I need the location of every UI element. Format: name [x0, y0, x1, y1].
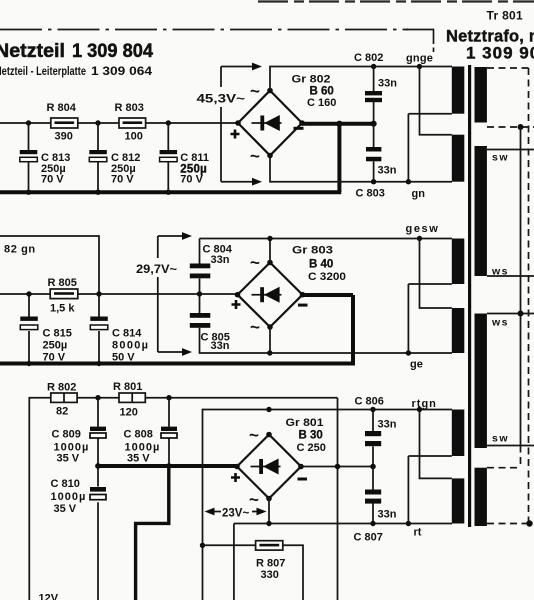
- svg-text:12V: 12V: [39, 593, 59, 600]
- Gr803 value B 40: [309, 259, 333, 271]
- resistor R805 label: [48, 277, 77, 289]
- node: C815 top junction: [26, 291, 31, 296]
- svg-text:35 V: 35 V: [57, 453, 80, 465]
- wire: winding3 bottom tap: [408, 284, 451, 353]
- resistor R803 label: [115, 102, 144, 114]
- label: 45,3V~: [195, 88, 247, 106]
- resistor R804 value 390: [55, 131, 73, 143]
- resistor R801 value 120: [120, 407, 138, 419]
- chain line: top edge right: [258, 0, 534, 2]
- capacitor C814: [90, 294, 108, 364]
- label ge: [410, 359, 423, 371]
- capacitor C802: [365, 67, 382, 124]
- transformer name: Netztrafo, m (clipped): [446, 28, 534, 46]
- svg-text:70 V: 70 V: [111, 174, 134, 186]
- svg-text:C 807: C 807: [354, 532, 383, 544]
- node: C808 bottom junction: [166, 463, 172, 469]
- capacitor C809: [90, 398, 106, 466]
- capacitor C812 label: [111, 152, 140, 186]
- Tr801 secondary winding 4 (gesw-ge lower): [452, 308, 465, 353]
- resistor R801 label: [113, 381, 142, 393]
- bridge rectifier Gr803 diamond: [238, 263, 303, 328]
- Tr801 secondary winding 1 (gnge-gn upper): [452, 67, 465, 114]
- node: dashed corner junction: [526, 520, 532, 526]
- Gr801 value B 30: [299, 430, 323, 442]
- Gr801 label: [286, 417, 324, 429]
- wire: winding2 top tap: [420, 67, 452, 135]
- label gn: [412, 188, 426, 200]
- wire: Gr802 top vertex to gnge line: [270, 67, 452, 91]
- wire: 82gn input: [0, 236, 99, 294]
- label: 29,7V~: [135, 259, 183, 276]
- svg-text:33n: 33n: [378, 509, 397, 521]
- label rt: [414, 527, 422, 539]
- svg-text:ge: ge: [410, 359, 423, 371]
- node: R807 tee junction: [200, 543, 205, 548]
- node: C807 bottom: [370, 521, 375, 526]
- wire: winding1 bottom tap: [408, 114, 451, 182]
- capacitor C814 label: [112, 328, 149, 364]
- Gr803 ~ marks: [250, 253, 260, 337]
- node: C815 rail junction: [26, 361, 31, 366]
- node gnge: [417, 64, 422, 69]
- capacitor C804 value 33n: [211, 254, 230, 266]
- Tr801 primary winding segment 1: [475, 67, 487, 123]
- svg-text:gesw: gesw: [406, 223, 440, 235]
- resistor R804 label: [47, 102, 77, 114]
- resistor R804: [51, 118, 78, 128]
- svg-text:~: ~: [250, 82, 260, 101]
- node: primary tap top: [518, 124, 524, 130]
- node: C811 rail junction: [166, 190, 171, 195]
- subtitle: Netzteil-Leiterplatte 1 309 064: [0, 64, 152, 78]
- label ws (seg3 top): [491, 317, 509, 329]
- Gr801 ~ marks: [249, 426, 259, 510]
- node: C803 bottom: [371, 179, 376, 184]
- wire: winding6 top tap: [420, 410, 452, 479]
- capacitor C809 label: [52, 429, 90, 465]
- svg-text:~: ~: [249, 426, 259, 445]
- capacitor C807 value 33n: [378, 509, 397, 521]
- capacitor C806 value 33n: [378, 419, 397, 431]
- node: minus crossing junction: [335, 464, 341, 470]
- capacitor C813 label: [41, 152, 70, 186]
- label 12V (clipped): [39, 593, 59, 600]
- svg-text:C 806: C 806: [355, 396, 384, 408]
- wire: winding4 top tap: [420, 239, 452, 309]
- wire: thick branch down-left to bottom edge: [136, 466, 169, 600]
- node: C811 top junction: [166, 120, 171, 125]
- svg-text:~: ~: [250, 147, 260, 166]
- wire: Gr801 bottom vertex down: [268, 499, 270, 524]
- svg-text:35 V: 35 V: [127, 453, 150, 465]
- svg-text:ws: ws: [491, 266, 509, 278]
- node: C806 top: [370, 407, 375, 412]
- Tr801 secondary winding 2 (gnge-gn lower): [452, 135, 465, 182]
- node: primary tap mid: [518, 311, 524, 317]
- node: C802 top: [371, 64, 376, 69]
- dashed enclosure: bottom: [487, 523, 530, 525]
- svg-text:1 309 064: 1 309 064: [91, 64, 152, 78]
- node rtgn: [417, 407, 422, 412]
- resistor R801: [119, 393, 145, 402]
- svg-text:Gr 801: Gr 801: [286, 417, 324, 429]
- svg-text:82: 82: [56, 406, 68, 418]
- svg-text:35 V: 35 V: [54, 503, 77, 515]
- node: ge wire tee: [267, 350, 272, 355]
- wire: winding5 bottom tap: [408, 456, 451, 524]
- svg-text:gn: gn: [412, 188, 426, 200]
- capacitor C813: [20, 123, 38, 192]
- capacitor C815: [20, 294, 38, 364]
- capacitor C812: [89, 123, 107, 192]
- node: C809 top junction: [95, 395, 100, 400]
- Gr803 diode symbol: [252, 287, 282, 303]
- svg-text:gnge: gnge: [406, 53, 433, 65]
- resistor R807 label: [256, 558, 285, 570]
- wire: Gr803 top vertex to gesw line: [200, 239, 453, 263]
- capacitor C811 label: [180, 152, 209, 186]
- label: 23V~: [222, 508, 249, 520]
- svg-text:~: ~: [250, 253, 260, 272]
- label C 805: [201, 332, 230, 344]
- Tr801 primary winding segment 4: [475, 468, 487, 526]
- svg-text:70 V: 70 V: [41, 174, 64, 186]
- svg-text:1 309 804: 1 309 804: [72, 40, 153, 62]
- transformer Tr801 label: [487, 9, 524, 23]
- svg-text:sw: sw: [492, 152, 509, 164]
- wire: S3 AC top wire B (rtgn): [203, 410, 453, 600]
- Gr802 - mark: [294, 127, 304, 130]
- label C 807: [354, 532, 383, 544]
- Gr802 + mark: [231, 130, 240, 139]
- Gr801 diode symbol: [251, 459, 281, 475]
- Gr803 label: [292, 245, 333, 257]
- label sw (seg3 bottom): [492, 433, 509, 445]
- capacitor C810: [90, 466, 106, 600]
- label C 806: [355, 396, 384, 408]
- svg-text:R 801: R 801: [113, 381, 142, 393]
- label C 802: [354, 52, 383, 64]
- svg-text:45,3V~: 45,3V~: [197, 94, 246, 106]
- svg-text:23V~: 23V~: [222, 508, 249, 520]
- resistor R807 value 330: [261, 569, 279, 581]
- capacitor C808: [161, 398, 177, 466]
- resistor R807: [256, 541, 283, 550]
- node: C802/C803 mid junction: [371, 121, 377, 127]
- node: C806/C807 mid junction: [370, 464, 376, 470]
- wire: primary seg2 top lead: [487, 149, 534, 151]
- svg-text:rt: rt: [414, 527, 422, 539]
- svg-text:B 40: B 40: [309, 259, 333, 271]
- svg-text:B 30: B 30: [299, 430, 323, 442]
- capacitor C815 label: [43, 328, 72, 364]
- svg-text:33n: 33n: [211, 254, 230, 266]
- Gr802 node dots: [235, 88, 305, 159]
- wire: S2 main DC+ wire y=294: [0, 293, 238, 295]
- node: gesw wire tee: [267, 236, 272, 241]
- wire: S3 DC+ junction wire (thick): [98, 464, 237, 468]
- capacitor C804: [190, 239, 211, 295]
- title: Netzteil 1 309 804: [0, 40, 153, 62]
- svg-text:70 V: 70 V: [180, 174, 203, 186]
- chain line: PCB boundary top-left: [0, 30, 434, 53]
- label ws (seg2 bottom): [491, 266, 509, 278]
- svg-text:Gr 802: Gr 802: [292, 74, 331, 86]
- Gr802 ~ marks: [250, 82, 260, 166]
- Gr801 - mark: [298, 478, 308, 481]
- capacitor C803 value 33n: [378, 165, 397, 177]
- wire: primary seg4 dashed link: [487, 446, 521, 468]
- label C 803: [356, 188, 385, 200]
- wire: vertical from wire A down right side: [337, 398, 339, 600]
- node gesw: [417, 236, 422, 241]
- svg-text:sw: sw: [492, 433, 509, 445]
- svg-text:ws: ws: [491, 317, 509, 329]
- svg-text:Tr 801: Tr 801: [487, 9, 524, 23]
- svg-text:100: 100: [125, 131, 143, 143]
- node: C814 top junction: [96, 291, 101, 296]
- node: C809/C810 junction: [95, 463, 101, 469]
- capacitor C803: [366, 124, 381, 182]
- node ge: [406, 350, 411, 355]
- svg-text:C 814: C 814: [112, 328, 142, 340]
- measurement bracket 45,3V~: [221, 63, 262, 186]
- wire: S2 bottom rail (thick): [0, 362, 355, 366]
- wire: Gr803 minus output (thick): [303, 295, 354, 364]
- svg-text:8000µ: 8000µ: [112, 340, 149, 352]
- svg-text:R 802: R 802: [47, 382, 76, 394]
- resistor R802 label: [47, 382, 76, 394]
- capacitor C810 label: [51, 478, 87, 515]
- Tr801 secondary winding 6 (rtgn-rt lower): [452, 478, 465, 523]
- svg-text:1 309 904: 1 309 904: [466, 44, 534, 63]
- svg-text:33n: 33n: [211, 340, 230, 352]
- Tr801 primary winding segment 2: [475, 146, 487, 276]
- Gr803 node dots: [235, 260, 306, 330]
- label rtgn: [412, 398, 437, 410]
- wire: Gr803 bottom vertex to ge line: [270, 327, 452, 353]
- Gr803 + mark: [232, 300, 241, 309]
- capacitor C808 label: [124, 429, 161, 465]
- Gr801 node dots: [234, 432, 304, 502]
- resistor R805 value 1,5k: [50, 303, 75, 315]
- dashed enclosure: right side: [528, 68, 530, 524]
- node rt: [406, 521, 411, 526]
- svg-text:R 804: R 804: [47, 102, 77, 114]
- label sw (primary top): [492, 152, 509, 164]
- Tr801 secondary winding 5 (rtgn-rt upper): [452, 410, 465, 457]
- label C 804: [203, 244, 233, 256]
- svg-text:29,7V~: 29,7V~: [136, 264, 177, 276]
- node: C813 top junction: [26, 120, 31, 125]
- svg-text:Netzteil: Netzteil: [0, 40, 65, 62]
- wire: Gr802 bottom vertex to gn line: [270, 156, 452, 182]
- Gr801 value C 250: [297, 442, 326, 454]
- svg-text:B 60: B 60: [310, 86, 334, 98]
- label gnge: [406, 53, 433, 65]
- wire: primary seg2 bottom lead: [487, 275, 534, 277]
- svg-text:C 250: C 250: [297, 442, 326, 454]
- svg-text:33n: 33n: [378, 165, 397, 177]
- Gr802 diode symbol: [252, 115, 282, 131]
- svg-text:C 802: C 802: [354, 52, 383, 64]
- node: C814 rail junction: [96, 361, 101, 366]
- resistor R805: [50, 289, 78, 299]
- svg-text:Gr 803: Gr 803: [292, 245, 333, 257]
- wire: rt line: [234, 524, 452, 600]
- wire: primary tap dashed seg1 bottom: [487, 126, 534, 128]
- resistor R802: [51, 393, 77, 402]
- node: C808 top junction: [166, 395, 171, 400]
- label 82gn: [4, 244, 36, 256]
- svg-text:C 803: C 803: [356, 188, 385, 200]
- wire: primary seg3 top lead: [487, 313, 534, 315]
- bridge rectifier Gr802 diamond: [238, 91, 302, 156]
- wire: S1 main DC+ wire y=123: [0, 122, 238, 124]
- transformer part no: 1 309 904 (clipped): [466, 44, 534, 63]
- Gr802 value C 160: [307, 97, 336, 109]
- measurement bracket 29,7V~: [158, 232, 192, 356]
- svg-text:C 811: C 811: [180, 152, 209, 164]
- wire: Gr801 minus output: [301, 466, 373, 468]
- wire: primary seg3 bottom lead: [487, 445, 534, 447]
- node: C804/C805 column junction: [197, 291, 202, 296]
- svg-text:C 810: C 810: [51, 478, 80, 490]
- Gr802 value B 60: [310, 86, 334, 98]
- svg-text:~: ~: [249, 490, 259, 509]
- node: rt tee at bottom vertex: [266, 521, 271, 526]
- svg-text:~: ~: [250, 318, 260, 337]
- Tr801 core: [468, 65, 471, 527]
- svg-text:R 805: R 805: [48, 277, 77, 289]
- capacitor C805: [190, 294, 270, 353]
- wire: R807 branch: [203, 545, 304, 600]
- svg-text:120: 120: [120, 407, 138, 419]
- Tr801 secondary winding 3 (gesw-ge upper): [452, 239, 465, 285]
- Tr801 primary winding segment 3: [475, 314, 487, 449]
- svg-text:390: 390: [55, 131, 73, 143]
- resistor R803 value 100: [125, 131, 143, 143]
- wire: primary tap vertical: [520, 127, 522, 446]
- node: C813 rail junction: [26, 190, 31, 195]
- node gn: [406, 179, 411, 184]
- capacitor C806: [365, 410, 381, 468]
- svg-text:33n: 33n: [378, 78, 397, 90]
- measurement 23V~ arrows: [205, 508, 267, 516]
- wire: S1 bottom rail (thick): [0, 190, 341, 194]
- Gr802 label: [292, 74, 331, 86]
- svg-text:Netzteil - Leiterplatte: Netzteil - Leiterplatte: [0, 64, 86, 78]
- resistor R802 value 82: [56, 406, 68, 418]
- svg-text:1000µ: 1000µ: [51, 491, 87, 503]
- svg-text:C 160: C 160: [307, 97, 336, 109]
- svg-text:C 808: C 808: [124, 429, 153, 441]
- resistor R803: [119, 118, 146, 128]
- wire: Gr802 minus output (thick): [302, 124, 374, 193]
- svg-text:330: 330: [261, 569, 279, 581]
- svg-text:R 803: R 803: [115, 102, 144, 114]
- Gr803 value C 3200: [308, 271, 346, 283]
- node: minus branch junction: [336, 121, 342, 127]
- dashed enclosure: top: [487, 67, 529, 69]
- svg-text:1,5 k: 1,5 k: [50, 303, 75, 315]
- label gesw: [406, 223, 440, 235]
- capacitor C811: [160, 123, 178, 192]
- svg-text:C 815: C 815: [43, 328, 72, 340]
- node: C812 top junction: [95, 120, 100, 125]
- svg-text:250µ: 250µ: [43, 340, 68, 352]
- capacitor C802 value 33n: [378, 78, 397, 90]
- svg-text:rtgn: rtgn: [412, 398, 437, 410]
- svg-text:C 809: C 809: [52, 429, 81, 441]
- node: C812 rail junction: [95, 190, 100, 195]
- svg-text:R 807: R 807: [256, 558, 285, 570]
- svg-text:82 gn: 82 gn: [4, 244, 36, 256]
- capacitor C805 value 33n: [211, 340, 230, 352]
- bridge rectifier Gr801 diamond: [237, 435, 301, 499]
- Gr803 - mark: [298, 304, 308, 307]
- Gr801 + mark: [231, 473, 240, 482]
- svg-text:C 3200: C 3200: [308, 271, 346, 283]
- capacitor C807: [365, 467, 381, 524]
- svg-text:33n: 33n: [378, 419, 397, 431]
- wire: S3 top wire A with left drop: [29, 398, 337, 600]
- node: Gr801 top vertex tee: [266, 407, 271, 412]
